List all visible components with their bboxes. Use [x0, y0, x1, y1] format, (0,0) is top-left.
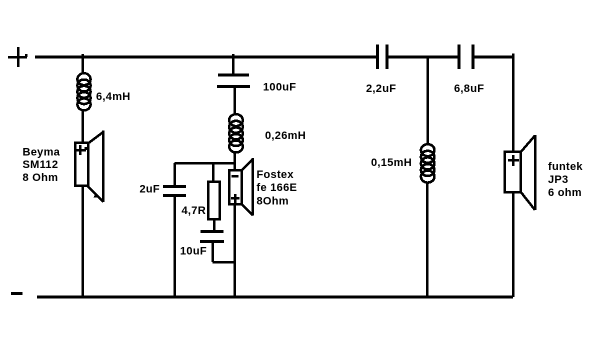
+ terminal — [8, 47, 27, 67]
speaker funtek JP3 — [505, 135, 536, 210]
wire top right corner drop to funtek — [512, 54, 515, 153]
capacitor 10uF — [200, 232, 224, 242]
svg-text:2,2uF: 2,2uF — [366, 83, 396, 95]
inductor 6,4mH — [77, 73, 90, 110]
resistor 4,7R — [208, 182, 220, 220]
svg-text:2uF: 2uF — [140, 184, 160, 196]
label funtek JP3 6 ohm — [548, 161, 583, 199]
wire funtek to bottom bus — [512, 192, 515, 297]
svg-text:fe 166E: fe 166E — [257, 182, 298, 194]
capacitor 6,8uF — [459, 45, 473, 70]
svg-text:8 Ohm: 8 Ohm — [23, 172, 59, 184]
- terminal — [11, 292, 23, 295]
svg-text:6 ohm: 6 ohm — [548, 187, 582, 199]
wire drop to 100uF — [232, 54, 235, 75]
svg-text:Beyma: Beyma — [23, 147, 61, 159]
svg-text:0,26mH: 0,26mH — [265, 130, 306, 142]
svg-text:6,4mH: 6,4mH — [96, 91, 131, 103]
svg-text:6,8uF: 6,8uF — [454, 83, 484, 95]
wire L1 to Beyma speaker — [81, 110, 84, 143]
svg-text:4,7R: 4,7R — [182, 205, 206, 217]
wire Beyma to bottom bus — [81, 186, 84, 297]
svg-text:8Ohm: 8Ohm — [257, 196, 289, 208]
svg-text:SM112: SM112 — [23, 159, 59, 171]
svg-text:funtek: funtek — [548, 161, 583, 173]
wire drop to 2uF — [173, 163, 176, 187]
wire RC shunt horizontal — [175, 162, 235, 165]
label Beyma SM112 8 Ohm — [23, 147, 61, 184]
wire 100uF to L2 — [234, 87, 237, 116]
capacitor 2,2uF — [378, 45, 388, 70]
wire top bus right segment — [473, 56, 514, 59]
svg-text:JP3: JP3 — [548, 174, 568, 186]
wire 4,7R to 10uF — [213, 219, 216, 232]
wire top bus left segment — [35, 56, 377, 59]
speaker Fostex fe 166E — [229, 158, 253, 215]
inductor 0,26mH — [229, 114, 243, 152]
wire 10uF elbow to Fostex branch — [213, 241, 236, 262]
wire drop to L3 — [426, 57, 429, 145]
capacitor 100uF — [217, 75, 250, 87]
svg-text:Fostex: Fostex — [257, 169, 295, 181]
wire 2uF to bottom bus — [173, 196, 176, 298]
wire drop to L1 — [81, 54, 84, 74]
speaker Beyma SM112 — [74, 131, 104, 203]
wire drop to 4,7R — [212, 163, 215, 182]
svg-text:100uF: 100uF — [263, 82, 296, 94]
svg-text:10uF: 10uF — [180, 246, 207, 258]
wire top bus middle segment — [387, 56, 459, 59]
wire L3 to bottom bus — [426, 183, 429, 297]
inductor 0,15mH — [421, 144, 435, 182]
capacitor 2uF — [163, 187, 186, 196]
label Fostex fe 166E 8Ohm — [257, 169, 298, 208]
svg-text:0,15mH: 0,15mH — [371, 157, 412, 169]
wire Fostex to bottom bus — [234, 204, 237, 297]
wire L2 to Fostex speaker — [234, 153, 237, 171]
wire bottom bus — [37, 296, 513, 299]
